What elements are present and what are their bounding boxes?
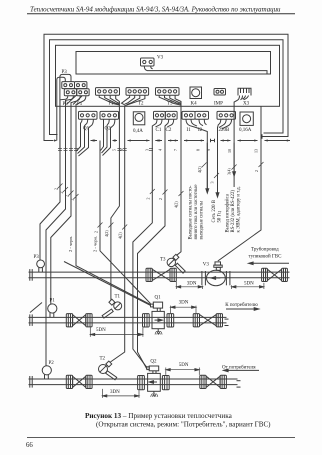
svg-text:0,4A: 0,4A: [133, 129, 143, 134]
wires from T2: [122, 95, 130, 105]
svg-text:10: 10: [227, 149, 232, 153]
wire to P2 sensor: [46, 141, 66, 366]
pipe 2 end cap: [29, 314, 31, 326]
svg-text:3DN: 3DN: [110, 390, 120, 395]
dimension 3DN pipe 2: [171, 300, 196, 313]
flow arrow pipe 1: [252, 262, 289, 264]
wire from V3 terminal: [144, 66, 267, 74]
thermometer T1: [102, 295, 122, 319]
pipe 2 supply line: [29, 316, 227, 318]
wires from Q1 block: [77, 119, 83, 151]
dimension 3DN pipe 3: [102, 389, 139, 398]
wires from T3: [159, 95, 181, 105]
svg-text:Выход интерфейса: Выход интерфейса: [226, 193, 231, 232]
rotated label: output signals: [189, 185, 205, 240]
svg-text:66: 66: [26, 442, 33, 449]
svg-text:I1: I1: [187, 128, 192, 133]
svg-text:13: 13: [254, 149, 259, 153]
valve on pipe 3 left: [66, 375, 92, 388]
svg-text:0,16A: 0,16A: [239, 128, 252, 133]
svg-text:9: 9: [206, 149, 211, 151]
rotated label: mains 220V: [212, 200, 223, 222]
pressure sensor P3: [34, 255, 45, 272]
svg-text:220В: 220В: [219, 128, 231, 133]
twisted pair marks: [58, 149, 153, 151]
svg-text:P2: P2: [49, 361, 55, 366]
terminal block C1 C2: [154, 111, 178, 133]
svg-text:4(2): 4(2): [197, 166, 202, 173]
svg-text:V3: V3: [203, 262, 210, 267]
svg-text:тупиковой ГВС: тупиковой ГВС: [249, 255, 283, 260]
svg-text:Q1: Q1: [155, 296, 162, 301]
svg-text:5DN: 5DN: [96, 328, 106, 333]
dimension 5DN pipe 3: [166, 363, 200, 375]
flow transducer Q2: [138, 359, 170, 397]
wires from T1: [99, 95, 119, 105]
connector V3 (terminal): [141, 56, 164, 67]
pipe 3 return line: [29, 378, 238, 380]
terminal block T2: [126, 88, 149, 107]
thermometer T2: [99, 357, 117, 380]
pipe 1 hot water line: [29, 271, 290, 273]
terminal block I1 I2: [182, 111, 209, 133]
svg-text:T1: T1: [115, 295, 121, 300]
thermometer T3: [160, 254, 185, 273]
wire to flow transducer Q1 b: [100, 141, 151, 304]
terminal block Q2: [100, 111, 119, 131]
svg-text:T2: T2: [138, 102, 144, 107]
svg-text:T2: T2: [100, 357, 106, 362]
terminal block 220V: [217, 111, 236, 133]
svg-text:C1: C1: [156, 128, 162, 133]
wire to P3 sensor a: [40, 141, 60, 261]
valve on pipe 3 right: [200, 375, 227, 388]
wires from I1 I2: [186, 119, 207, 190]
wire numbers: [111, 149, 258, 153]
valve on pipe 1 left: [146, 268, 176, 281]
pipe 1 end cap: [29, 269, 31, 281]
panel boundary with cable gaps: [91, 140, 98, 142]
svg-text:к ЭВМ, адаптеру и т.д.: к ЭВМ, адаптеру и т.д.: [237, 186, 242, 232]
fuse 0,16A: [239, 112, 253, 133]
P3 cable up stub: [57, 77, 66, 140]
boundary ticks: [60, 139, 76, 143]
pressure sensor P2: [42, 361, 54, 379]
svg-text:2: 2: [69, 199, 74, 201]
flow transducer V3: [202, 262, 230, 286]
svg-text:X3: X3: [243, 102, 250, 107]
svg-text:Теплосчетчики SA-94 модификаци: Теплосчетчики SA-94 модификации SA-94/3,…: [30, 6, 281, 13]
svg-text:Рисунок 13 – Пример установки: Рисунок 13 – Пример установки теплосчетч…: [85, 412, 233, 420]
svg-text:2: 2: [93, 231, 98, 233]
svg-text:K4: K4: [191, 102, 198, 107]
terminal block T3: [156, 88, 180, 107]
svg-text:RS-232 (или RS-422): RS-232 (или RS-422): [231, 190, 236, 233]
svg-text:Q2: Q2: [150, 359, 157, 364]
svg-text:(Открытая система, режим: "Пот: (Открытая система, режим: "Потребитель",…: [96, 420, 271, 428]
interface arrow: [233, 143, 235, 172]
valve on pipe 2 right: [193, 314, 222, 327]
rotated label: RS-232 interface: [226, 186, 242, 232]
svg-text:5DN: 5DN: [179, 363, 189, 368]
dimension 5DN pipe 1: [232, 282, 264, 289]
svg-text:8: 8: [196, 149, 201, 151]
slash labels: [54, 166, 260, 239]
svg-text:5: 5: [111, 149, 116, 151]
svg-text:P3: P3: [34, 255, 40, 260]
svg-text:2: 2: [54, 188, 59, 190]
wire to thermometer T3 cable: [177, 141, 181, 256]
svg-text:Сеть 220 В: Сеть 220 В: [212, 200, 217, 222]
svg-text:Трубопровод: Трубопровод: [251, 248, 279, 253]
dimension 3DN pipe 1: [176, 282, 202, 290]
label dead-end DHW pipe: [249, 248, 283, 260]
svg-text:3(4): 3(4): [227, 168, 232, 175]
flow arrow pipe 3: [227, 369, 259, 371]
svg-text:5DN: 5DN: [244, 282, 254, 287]
svg-text:К потребителю: К потребителю: [225, 303, 258, 308]
enclosure outline R1: [44, 34, 288, 140]
svg-text:C2: C2: [166, 128, 172, 133]
svg-text:T3: T3: [160, 258, 166, 263]
inner box R4: [76, 52, 271, 75]
footer rule: [27, 436, 295, 439]
svg-text:3DN: 3DN: [179, 300, 189, 305]
flow transducer Q1: [143, 296, 174, 335]
wire to thermometer T2: [110, 141, 124, 363]
svg-text:2: 2: [145, 198, 150, 200]
dimension 5DN pipe 2: [90, 327, 143, 337]
svg-text:Выходные сигналы посто-: Выходные сигналы посто-: [189, 185, 194, 239]
wire to flow transducer Q1 a: [76, 141, 151, 305]
wires from P block: [60, 96, 68, 141]
wires from C1 C2: [133, 119, 157, 367]
pipe 3 end cap: [29, 376, 31, 388]
relay K4: [190, 87, 202, 107]
fuse 0,4A: [133, 112, 145, 134]
pipe 2 break stubs: [225, 318, 229, 320]
terminal block P3/P2/P1: [62, 70, 90, 107]
svg-text:3: 3: [145, 149, 150, 151]
wire to flow transducer Q1 c: [64, 262, 151, 306]
wires from X3: [234, 96, 239, 188]
core-count slashes: [58, 162, 264, 230]
svg-text:2: 2: [254, 170, 259, 172]
svg-text:V3: V3: [157, 56, 164, 61]
output signals arrow: [206, 143, 208, 189]
svg-text:2: 2: [158, 198, 163, 200]
svg-text:выходные сигналы: выходные сигналы: [199, 200, 204, 239]
svg-text:3: 3: [210, 182, 215, 184]
svg-text:7: 7: [173, 149, 178, 151]
pressure sensor P1: [48, 299, 57, 318]
flow arrow pipe 2: [226, 308, 256, 310]
wires from Q2 block: [101, 119, 104, 150]
cable labels "2 - cherny": [68, 236, 98, 252]
svg-text:IMP: IMP: [214, 102, 223, 107]
enclosure outline R2: [50, 40, 284, 135]
wire 13 to V3 sensor: [218, 106, 261, 261]
wires from 220V: [218, 119, 221, 193]
svg-text:P1: P1: [50, 299, 56, 304]
enclosure outline R3: [56, 45, 280, 106]
valve on pipe 1 right: [262, 268, 288, 281]
svg-text:50 Гц: 50 Гц: [218, 211, 223, 223]
svg-text:3DN: 3DN: [187, 282, 197, 287]
connector IMP: [214, 89, 226, 107]
terminal block Q1: [79, 111, 98, 131]
svg-text:янного тока или частотные: янного тока или частотные: [194, 185, 199, 240]
wire crossing left margin: [30, 303, 42, 313]
valve on pipe 2 left: [66, 314, 92, 327]
mains arrow: [217, 143, 219, 193]
svg-text:4(2): 4(2): [173, 201, 178, 208]
pipe 3 break stubs: [237, 380, 241, 382]
svg-text:4: 4: [158, 149, 163, 151]
terminal block T1: [96, 88, 120, 107]
svg-text:2 - черн.: 2 - черн.: [93, 236, 98, 252]
connector X3: [238, 88, 251, 106]
wire to thermometer T1: [111, 141, 120, 300]
header rule: [27, 13, 295, 15]
svg-text:4(2): 4(2): [118, 232, 123, 239]
svg-text:2 - черн.: 2 - черн.: [68, 236, 73, 252]
svg-text:4(2): 4(2): [104, 230, 109, 237]
wire to P1 sensor: [51, 141, 71, 305]
